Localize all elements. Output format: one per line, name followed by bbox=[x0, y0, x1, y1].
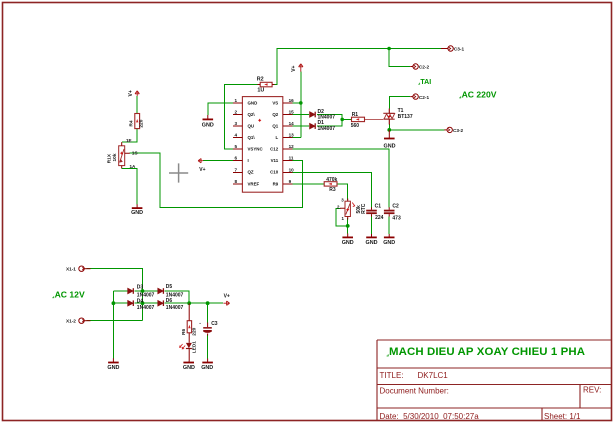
node bridge left bbox=[112, 301, 116, 305]
svg-text:GND: GND bbox=[366, 240, 378, 246]
svg-text:C12: C12 bbox=[270, 147, 279, 152]
IC pin names right bbox=[270, 100, 279, 186]
svg-text:R1: R1 bbox=[352, 112, 359, 118]
svg-text:AC 12V: AC 12V bbox=[55, 289, 85, 299]
ground G6 (C2) bbox=[383, 234, 395, 246]
svg-text:GND: GND bbox=[248, 100, 258, 105]
svg-text:GND: GND bbox=[183, 365, 195, 371]
wire C2 to GND bbox=[388, 216, 390, 234]
label C2 / 473 bbox=[392, 204, 401, 222]
resistor R2 bbox=[258, 82, 275, 87]
svg-text:V+: V+ bbox=[128, 90, 134, 96]
diode D1 1N4007 bbox=[310, 123, 316, 129]
svg-text:VSYNC: VSYNC bbox=[248, 147, 264, 152]
svg-text:TITLE:: TITLE: bbox=[380, 371, 404, 380]
connector X1-1 bbox=[66, 266, 91, 272]
svg-text:X1-1: X1-1 bbox=[66, 267, 76, 272]
svg-text:VS: VS bbox=[272, 100, 278, 105]
svg-text:GND: GND bbox=[342, 240, 354, 246]
svg-text:V11: V11 bbox=[271, 158, 279, 163]
IC pin numbers left 1-8 bbox=[234, 98, 237, 184]
label RTC / 50k rotated bbox=[356, 203, 367, 214]
svg-text:R6: R6 bbox=[181, 329, 187, 335]
svg-text:Date: 5/30/2010 07:50:27a: Date: 5/30/2010 07:50:27a bbox=[380, 412, 480, 421]
resistor R6 bbox=[187, 303, 191, 343]
wire bridge bottom row to V+ bbox=[113, 302, 223, 304]
wire V+ to R4 bbox=[136, 96, 138, 114]
connector C3-2 bbox=[444, 127, 463, 133]
wire C1 to GND bbox=[371, 216, 373, 234]
svg-text:1U: 1U bbox=[257, 88, 264, 94]
label trimmer pins 3 2 1 bbox=[337, 198, 345, 221]
capacitor C3 electrolytic bbox=[203, 323, 212, 336]
power V+ arrow above R4 bbox=[128, 90, 140, 96]
sheet origin cross bbox=[169, 163, 188, 182]
svg-text:15: 15 bbox=[289, 110, 295, 115]
net label AC 12V bbox=[52, 289, 85, 299]
svg-text:R4: R4 bbox=[129, 120, 135, 126]
svg-text:C1: C1 bbox=[375, 204, 382, 210]
net label TAI bbox=[418, 79, 431, 86]
wire R1 to triac gate bbox=[365, 118, 383, 120]
svg-text:560: 560 bbox=[351, 123, 360, 129]
LED LED1 bbox=[180, 343, 192, 362]
label D4 / 1N4007 bbox=[137, 298, 155, 311]
svg-text:X1-2: X1-2 bbox=[66, 319, 76, 324]
label T1 / BT137 bbox=[398, 108, 413, 120]
wire bridge left node to GND bbox=[112, 291, 114, 358]
wire X1-2 to bridge mid-bottom riser bbox=[87, 320, 143, 322]
svg-text:11: 11 bbox=[289, 156, 294, 161]
wire trimmer wiper loop bbox=[336, 208, 348, 226]
svg-text:L: L bbox=[276, 135, 279, 140]
wire pin15 to D2 bbox=[292, 114, 309, 116]
power V+ arrow at pin6 bbox=[198, 159, 206, 173]
svg-text:GND: GND bbox=[383, 240, 395, 246]
ground G8 (LED) bbox=[183, 362, 195, 372]
wire D1/D2 junction to R1 bbox=[317, 115, 352, 127]
svg-text:R1X: R1X bbox=[107, 153, 113, 163]
svg-text:V+: V+ bbox=[291, 65, 297, 71]
IC right pin stubs 16-9 bbox=[283, 103, 293, 184]
svg-text:220: 220 bbox=[139, 119, 145, 127]
svg-text:DK7LC1: DK7LC1 bbox=[418, 371, 449, 380]
wire X1-1 to bridge mid-top bbox=[87, 269, 143, 321]
wire pot bottom to GND bbox=[122, 168, 137, 204]
svg-text:R2: R2 bbox=[257, 76, 264, 82]
wire R3 to trimmer bbox=[337, 184, 348, 200]
svg-text:C3: C3 bbox=[211, 321, 218, 327]
svg-text:1N4007: 1N4007 bbox=[318, 126, 336, 132]
label C1 / 224 bbox=[375, 204, 384, 221]
resistor R3 bbox=[324, 182, 337, 186]
svg-text:8: 8 bbox=[234, 179, 237, 184]
svg-text:1S: 1S bbox=[132, 151, 138, 156]
svg-text:3: 3 bbox=[234, 121, 237, 126]
svg-text:C3-1: C3-1 bbox=[454, 47, 465, 52]
svg-text:Sheet: 1/1: Sheet: 1/1 bbox=[544, 412, 581, 421]
ground G9 (C3) bbox=[201, 359, 213, 372]
svg-text:GND: GND bbox=[202, 122, 214, 128]
wire triac top to C2-1 bbox=[389, 97, 410, 109]
node top-net junction bbox=[387, 47, 391, 51]
ground G5 (C1) bbox=[366, 234, 378, 246]
svg-text:13: 13 bbox=[289, 133, 295, 138]
op-amp ?? main IC U1 TCA785 body bbox=[242, 97, 282, 193]
svg-text:7: 7 bbox=[234, 167, 237, 172]
diode D4 1N4007 bbox=[128, 300, 134, 306]
wire bridge top row bbox=[113, 291, 189, 303]
label D5 / 1N4007 bbox=[166, 284, 184, 299]
connector C2-1 bbox=[410, 94, 429, 100]
ground G4 (trimmer) bbox=[342, 234, 354, 246]
wire trimmer junction to GND bbox=[347, 226, 349, 234]
label R2 / 1U bbox=[257, 76, 265, 93]
wire pin10 to C1 bbox=[292, 172, 371, 207]
diode D5 1N4007 bbox=[158, 288, 164, 294]
wire top net to C3-1 with branch to C2-2 bbox=[389, 49, 410, 67]
svg-text:10: 10 bbox=[289, 167, 295, 172]
label 470k / R3 bbox=[326, 177, 337, 193]
label R6 / 220 rotated bbox=[181, 327, 197, 335]
svg-text:1N4007: 1N4007 bbox=[166, 305, 184, 311]
svg-text:I: I bbox=[248, 158, 249, 163]
svg-text:GND: GND bbox=[201, 365, 213, 371]
titleblock Document row bbox=[380, 386, 602, 396]
node bridge right bbox=[187, 301, 191, 305]
svg-text:BT137: BT137 bbox=[398, 114, 413, 120]
label D3 / 1N4007 bbox=[137, 285, 155, 299]
node bridge mid-bottom bbox=[141, 301, 145, 305]
svg-text:R9: R9 bbox=[273, 181, 279, 186]
resistor R1 bbox=[352, 117, 365, 121]
wire pin1 to GND bbox=[208, 103, 233, 115]
wire trimmer bottom junction bbox=[347, 218, 349, 226]
trimmer RTC 50k bbox=[340, 199, 355, 220]
svg-text:Q1\: Q1\ bbox=[248, 135, 256, 140]
svg-text:TAI: TAI bbox=[420, 79, 431, 86]
net label AC 220V bbox=[459, 90, 497, 100]
svg-text:D4: D4 bbox=[137, 298, 144, 304]
node pin16 V+ junction bbox=[299, 101, 303, 105]
svg-text:GND: GND bbox=[131, 210, 143, 216]
node bridge mid-top bbox=[141, 289, 145, 293]
power V+ arrow above pin16 bbox=[291, 64, 303, 72]
svg-text:5: 5 bbox=[234, 144, 237, 149]
node C3 tap bbox=[206, 301, 210, 305]
svg-text:C3-2: C3-2 bbox=[453, 128, 464, 133]
svg-text:V+: V+ bbox=[199, 167, 205, 173]
IC left pin stubs 1-8 bbox=[233, 103, 242, 184]
resistor R4 bbox=[135, 114, 140, 129]
svg-text:1A: 1A bbox=[130, 164, 137, 169]
node D1-D2 junction bbox=[340, 118, 344, 122]
svg-text:C10: C10 bbox=[270, 170, 279, 175]
svg-text:LED1: LED1 bbox=[192, 341, 198, 354]
connector X1-2 bbox=[66, 318, 91, 324]
wire triac bottom to C3-2 and GND bbox=[389, 124, 444, 130]
label pot pins 1E 1S 1A bbox=[126, 138, 138, 169]
wire pin12 to C2 bbox=[292, 149, 389, 207]
svg-text:QZ: QZ bbox=[248, 170, 254, 175]
svg-text:12: 12 bbox=[289, 144, 295, 149]
IC pin numbers right 16-9 bbox=[289, 98, 295, 184]
label C3 / minus bbox=[199, 321, 218, 328]
svg-text:VREF: VREF bbox=[248, 181, 260, 186]
title block frame bbox=[377, 340, 612, 421]
IC pin names left bbox=[248, 100, 264, 186]
capacitor C2 473 bbox=[384, 207, 395, 216]
wire R4 to pot top bbox=[122, 129, 137, 142]
capacitor C1 224 bbox=[366, 207, 377, 216]
titleblock TITLE row bbox=[380, 371, 449, 380]
label D2 / 1N4007 bbox=[318, 109, 336, 121]
ground G1 (pin1) bbox=[202, 115, 214, 128]
svg-text:GND: GND bbox=[107, 365, 119, 371]
svg-text:470k: 470k bbox=[326, 177, 337, 183]
svg-text:10k: 10k bbox=[112, 153, 118, 161]
svg-text:16: 16 bbox=[289, 98, 295, 103]
node triac MT1 junction bbox=[387, 128, 391, 132]
svg-text:REV:: REV: bbox=[583, 386, 601, 395]
node trimmer-GND junction bbox=[346, 224, 350, 228]
svg-text:Q2: Q2 bbox=[272, 112, 278, 117]
svg-text:R3: R3 bbox=[329, 187, 336, 193]
wire pin14 to D1 bbox=[292, 125, 309, 127]
potentiometer R1X 10k bbox=[119, 142, 130, 168]
svg-text:C2-2: C2-2 bbox=[419, 65, 430, 70]
svg-text:V+: V+ bbox=[224, 294, 230, 300]
svg-text:Q1: Q1 bbox=[272, 124, 278, 129]
diode D6 1N4007 bbox=[158, 300, 164, 306]
label R4 / 220 rotated bbox=[129, 119, 145, 127]
wire V+ rail pins 16-13 bbox=[292, 72, 301, 138]
svg-text:473: 473 bbox=[392, 215, 401, 221]
ground G3 (triac) bbox=[384, 130, 396, 150]
triac T1 BT137 bbox=[383, 109, 394, 125]
wire pin9 to R3 bbox=[292, 183, 324, 185]
svg-text:C2: C2 bbox=[392, 204, 399, 210]
svg-text:RTC: RTC bbox=[361, 203, 367, 214]
label R1 / 560 bbox=[351, 112, 360, 129]
svg-text:D3: D3 bbox=[137, 285, 144, 291]
svg-text:1: 1 bbox=[234, 98, 237, 103]
svg-text:14: 14 bbox=[289, 121, 295, 126]
svg-text:6: 6 bbox=[234, 156, 237, 161]
wire C3 branch bbox=[207, 303, 209, 358]
svg-text:9: 9 bbox=[289, 179, 292, 184]
connector C2-2 bbox=[410, 64, 429, 70]
svg-text:D6: D6 bbox=[166, 298, 173, 304]
svg-text:GND: GND bbox=[384, 144, 396, 150]
svg-text:224: 224 bbox=[375, 215, 384, 221]
power V+ arrow bridge output bbox=[223, 294, 230, 306]
svg-text:1E: 1E bbox=[126, 138, 132, 143]
svg-text:Q2\: Q2\ bbox=[248, 112, 256, 117]
label D6 / 1N4007 bbox=[166, 298, 184, 311]
ground G2 (pot) bbox=[131, 204, 143, 216]
diode D3 1N4007 bbox=[128, 288, 134, 294]
svg-text:1N4007: 1N4007 bbox=[137, 305, 155, 311]
diode D2 1N4007 bbox=[310, 112, 316, 118]
svg-text:220: 220 bbox=[191, 327, 197, 335]
svg-text:Document Number:: Document Number: bbox=[380, 386, 449, 395]
title text MACH DIEU AP XOAY CHIEU 1 PHA bbox=[387, 346, 585, 358]
svg-text:4: 4 bbox=[234, 133, 237, 138]
svg-text:MACH DIEU AP XOAY CHIEU 1 PHA: MACH DIEU AP XOAY CHIEU 1 PHA bbox=[389, 346, 585, 358]
titleblock Date row bbox=[380, 412, 582, 421]
svg-text:D5: D5 bbox=[166, 284, 173, 290]
svg-text:AC 220V: AC 220V bbox=[462, 90, 497, 100]
svg-text:QU: QU bbox=[248, 124, 255, 129]
svg-text:2: 2 bbox=[234, 110, 237, 115]
ground G7 (bridge) bbox=[107, 358, 119, 371]
wire pin11 to pot wiper bbox=[130, 153, 303, 207]
wire net R2-pin5 (ramp) bbox=[224, 49, 445, 150]
svg-text:C2-1: C2-1 bbox=[419, 95, 430, 100]
label pot R1X / 10k rotated bbox=[107, 153, 118, 163]
wire pin6 to V+ arrow bbox=[203, 160, 233, 162]
connector C3-1 bbox=[441, 46, 464, 52]
label D1 / 1N4007 bbox=[318, 120, 336, 132]
